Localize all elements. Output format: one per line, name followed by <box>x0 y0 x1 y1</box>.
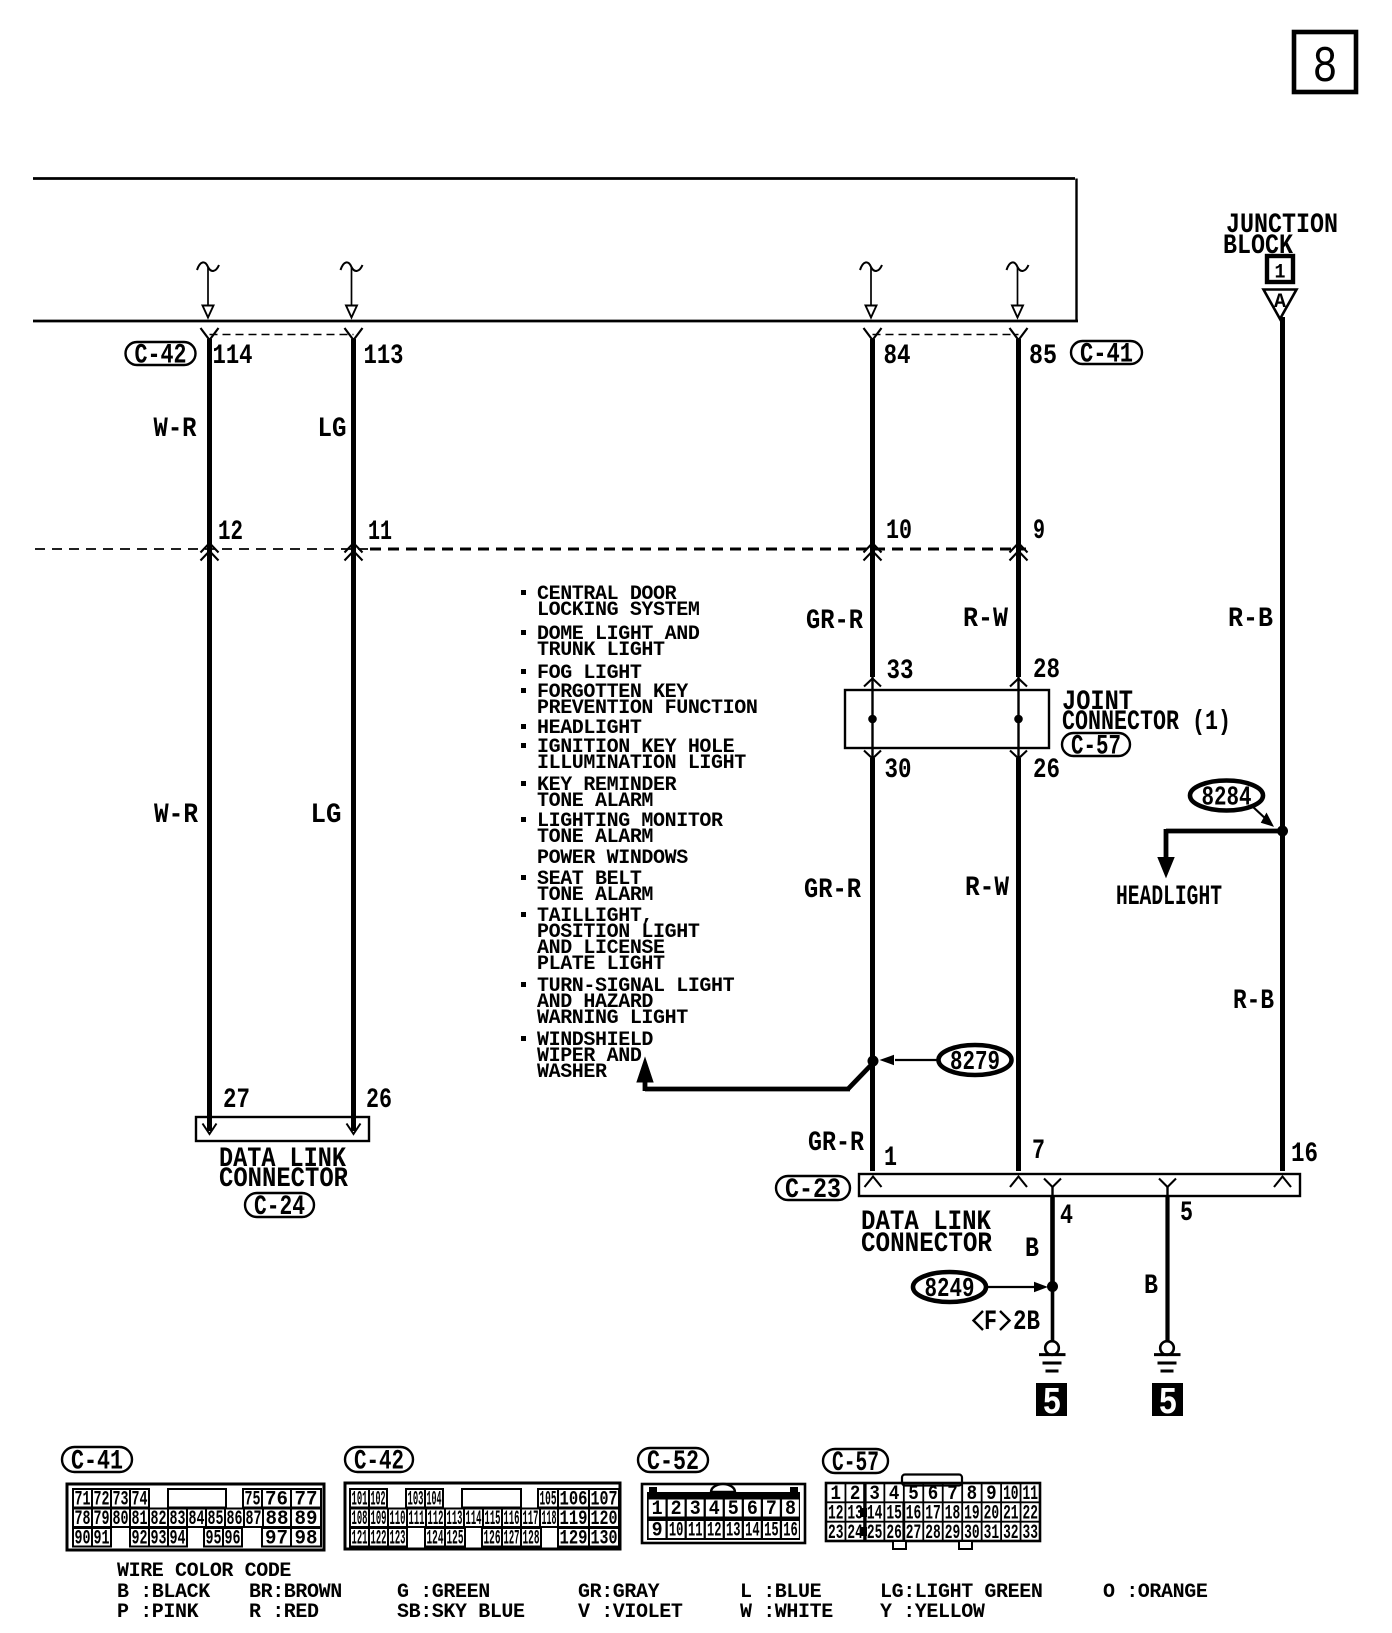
junction dot on GR-R wire <box>868 1056 879 1067</box>
wire label B (pin 4) <box>1025 1234 1039 1265</box>
svg-text:W :WHITE: W :WHITE <box>740 1601 833 1624</box>
label (F) 2B <box>974 1307 1041 1338</box>
label C-24 <box>245 1192 314 1223</box>
svg-text:B: B <box>1144 1271 1158 1302</box>
svg-text:128: 128 <box>523 1527 540 1550</box>
svg-text:WIRE COLOR CODE: WIRE COLOR CODE <box>117 1560 291 1583</box>
svg-text:97: 97 <box>265 1527 288 1550</box>
bus line top <box>33 177 1075 180</box>
svg-text:C-24: C-24 <box>254 1192 305 1223</box>
inline connector chevrons pin 11 <box>345 543 363 561</box>
load list <box>521 583 757 1084</box>
branch wire to load list <box>645 1062 874 1091</box>
pin number 26 (C-24) <box>366 1085 392 1116</box>
svg-text:13: 13 <box>726 1520 741 1543</box>
joint connector pin chevron 33 <box>864 679 881 687</box>
wire GR-R through joint connector (thin) <box>871 677 873 758</box>
svg-text:GR-R: GR-R <box>804 875 861 906</box>
svg-text:85: 85 <box>1029 341 1057 372</box>
wire label R-W <box>963 604 1008 635</box>
ground symbol pin 4 <box>1039 1341 1066 1371</box>
junction dot in joint connector right <box>1014 715 1023 724</box>
svg-text:122: 122 <box>371 1527 387 1550</box>
label C-42 (pinout) <box>345 1447 413 1478</box>
svg-text:5: 5 <box>1159 1382 1178 1425</box>
pin number 1 <box>884 1143 897 1174</box>
inline connector chevrons pin 10 <box>864 543 882 561</box>
junction dot on R-B wire <box>1277 826 1288 837</box>
svg-text:C-52: C-52 <box>647 1447 699 1478</box>
svg-text:6: 6 <box>747 1498 758 1521</box>
svg-text:C-41: C-41 <box>71 1447 123 1478</box>
pin number 26 <box>1033 755 1060 786</box>
svg-text:93: 93 <box>151 1527 167 1550</box>
svg-text:C-57: C-57 <box>832 1448 879 1479</box>
svg-text:R-W: R-W <box>963 604 1008 635</box>
pin chevron 114 <box>201 328 219 340</box>
svg-text:127: 127 <box>504 1527 520 1550</box>
label C-57 (pinout) <box>823 1448 888 1479</box>
pin number 114 <box>213 341 253 372</box>
svg-text:11: 11 <box>368 517 392 548</box>
wire label R-B lower <box>1233 986 1274 1017</box>
svg-text:WARNING LIGHT: WARNING LIGHT <box>537 1007 688 1030</box>
label HEADLIGHT <box>1116 882 1222 913</box>
connector C-42 boundary (dashed) <box>210 334 354 336</box>
svg-text:118: 118 <box>542 1508 557 1531</box>
svg-text:114: 114 <box>213 341 253 372</box>
callout oval 8279 <box>939 1045 1012 1078</box>
svg-text:9: 9 <box>1033 516 1045 547</box>
wire label GR-R <box>806 606 863 637</box>
svg-text:95: 95 <box>206 1527 222 1550</box>
svg-text:3: 3 <box>690 1498 701 1521</box>
svg-text:WASHER: WASHER <box>537 1061 607 1084</box>
connector C-57 pinout <box>826 1483 1040 1549</box>
svg-text:2: 2 <box>671 1498 682 1521</box>
branch wire to headlight <box>1166 829 1283 859</box>
pin number 16 <box>1291 1139 1318 1170</box>
svg-text:124: 124 <box>427 1527 444 1550</box>
joint connector pin chevron 28 <box>1010 679 1027 687</box>
svg-text:31: 31 <box>984 1522 1000 1545</box>
ground wire pin 5 <box>1165 1196 1169 1341</box>
svg-text:R :RED: R :RED <box>249 1601 319 1624</box>
pin number 85 <box>1029 341 1057 372</box>
connector C-52 pinout <box>642 1484 805 1543</box>
C-23 pin chevron 5 <box>1159 1179 1176 1197</box>
svg-text:5: 5 <box>1180 1198 1193 1229</box>
svg-text:84: 84 <box>189 1508 205 1531</box>
svg-text:96: 96 <box>225 1527 241 1550</box>
svg-text:2B: 2B <box>1013 1307 1040 1338</box>
wire color code legend <box>117 1560 1208 1624</box>
pin number 113 <box>364 341 404 372</box>
pin number 28 <box>1033 655 1060 686</box>
arrow from 8284 to wire <box>1252 806 1273 826</box>
pin number 7 <box>1032 1136 1045 1167</box>
svg-text:28: 28 <box>925 1522 941 1545</box>
wire label R-B upper <box>1228 604 1273 635</box>
svg-text:91: 91 <box>94 1527 110 1550</box>
wire GR-R upper <box>870 339 875 677</box>
svg-text:27: 27 <box>906 1522 922 1545</box>
label DATA LINK CONNECTOR (C-24) <box>219 1144 348 1195</box>
wire drop to pin 84 <box>860 262 882 317</box>
svg-text:98: 98 <box>295 1527 318 1550</box>
svg-text:30: 30 <box>885 755 912 786</box>
harness boundary dashed line left <box>35 548 370 550</box>
svg-text:R-B: R-B <box>1228 604 1273 635</box>
wire GR-R lower <box>870 758 875 1171</box>
svg-text:CONNECTOR: CONNECTOR <box>219 1164 348 1195</box>
svg-text:129: 129 <box>560 1527 588 1550</box>
junction dot on ground wire 4 <box>1047 1281 1058 1292</box>
connector C-42 pinout <box>345 1483 620 1550</box>
callout oval 8249 <box>913 1272 986 1305</box>
wire label W-R lower <box>154 800 198 831</box>
svg-text:HEADLIGHT: HEADLIGHT <box>1116 882 1222 913</box>
wire label GR-R mid <box>804 875 861 906</box>
svg-text:130: 130 <box>591 1527 618 1550</box>
svg-text:1: 1 <box>884 1143 897 1174</box>
pin number 30 <box>885 755 912 786</box>
svg-text:4: 4 <box>709 1498 720 1521</box>
wire R-B (junction block to C-23 pin 16) <box>1280 317 1285 1171</box>
svg-text:GR-R: GR-R <box>808 1128 864 1159</box>
svg-text:ILLUMINATION LIGHT: ILLUMINATION LIGHT <box>537 752 746 775</box>
pin chevron 113 <box>345 328 363 340</box>
svg-text:SB:SKY BLUE: SB:SKY BLUE <box>397 1601 525 1624</box>
wire label LG <box>318 414 347 445</box>
wire drop to pin 85 <box>1007 262 1029 317</box>
svg-text:A: A <box>1274 291 1286 314</box>
svg-text:C-23: C-23 <box>785 1175 841 1206</box>
wire label GR-R bottom <box>808 1128 864 1159</box>
arrowhead to load list <box>637 1058 653 1082</box>
svg-text:28: 28 <box>1033 655 1060 686</box>
ground symbol pin 5 <box>1154 1341 1181 1371</box>
svg-text:8249: 8249 <box>925 1275 975 1305</box>
svg-text:87: 87 <box>246 1508 262 1531</box>
svg-text:1: 1 <box>652 1498 663 1521</box>
svg-text:POWER WINDOWS: POWER WINDOWS <box>537 847 688 870</box>
svg-text:125: 125 <box>447 1527 464 1550</box>
junction dot in joint connector left <box>868 715 877 724</box>
wire label B (pin 5) <box>1144 1271 1158 1302</box>
svg-text:C-57: C-57 <box>1071 732 1121 763</box>
svg-text:B: B <box>1025 1234 1039 1265</box>
svg-text:7: 7 <box>1032 1136 1045 1167</box>
svg-text:90: 90 <box>75 1527 91 1550</box>
svg-text:R-B: R-B <box>1233 986 1274 1017</box>
pin chevron 84 <box>864 328 882 340</box>
connector C-24 box <box>196 1117 369 1141</box>
inline connector chevrons pin 9 <box>1010 543 1028 561</box>
label C-52 (pinout) <box>638 1447 708 1478</box>
svg-text:LG: LG <box>318 414 347 445</box>
pin chevron 85 <box>1010 328 1028 340</box>
svg-text:12: 12 <box>218 517 243 548</box>
svg-text:26: 26 <box>366 1085 392 1116</box>
junction block label <box>1223 210 1338 262</box>
C-23 pin chevron 4 <box>1044 1179 1061 1197</box>
connector C-23 box <box>859 1174 1300 1196</box>
svg-text:5: 5 <box>1043 1382 1062 1425</box>
svg-text:8: 8 <box>785 1498 796 1521</box>
svg-text:W-R: W-R <box>154 414 197 445</box>
svg-text:26: 26 <box>1033 755 1060 786</box>
label C-57 <box>1062 732 1130 763</box>
svg-text:10: 10 <box>669 1520 684 1543</box>
svg-text:80: 80 <box>113 1508 129 1531</box>
svg-text:11: 11 <box>688 1520 703 1543</box>
connector C-57 latch <box>902 1475 962 1486</box>
wire drop to pin 113 <box>341 262 363 317</box>
svg-text:114: 114 <box>466 1508 482 1531</box>
svg-text:94: 94 <box>170 1527 186 1550</box>
svg-text:121: 121 <box>352 1527 368 1550</box>
label C-42 <box>126 341 196 372</box>
label JOINT CONNECTOR (1) <box>1062 687 1231 738</box>
svg-text:29: 29 <box>945 1522 961 1545</box>
svg-text:R-W: R-W <box>965 873 1009 904</box>
pin number 9 <box>1033 516 1045 547</box>
harness boundary dashed line right (bold) <box>370 548 1026 551</box>
wire R-W through joint connector (thin) <box>1017 677 1019 758</box>
wire drop to pin 114 <box>197 262 219 317</box>
wire label W-R <box>154 414 197 445</box>
svg-text:32: 32 <box>1003 1522 1019 1545</box>
page number box 8 <box>1294 32 1356 97</box>
svg-text:C-41: C-41 <box>1080 340 1133 371</box>
label DATA LINK CONNECTOR (C-23) <box>861 1207 992 1260</box>
pin number 11 <box>368 517 392 548</box>
wire R-W lower <box>1016 758 1021 1171</box>
joint connector pin chevron 30 <box>864 751 881 759</box>
joint connector (1) box C-57 <box>845 690 1049 748</box>
wire R-W upper <box>1016 339 1021 677</box>
svg-text:111: 111 <box>409 1508 425 1531</box>
svg-text:10: 10 <box>886 516 912 547</box>
pin number 33 <box>887 656 914 687</box>
arrowhead to headlight <box>1158 858 1174 878</box>
svg-text:113: 113 <box>364 341 404 372</box>
arrowhead into C-24 pin 27 <box>203 1124 217 1135</box>
svg-text:16: 16 <box>783 1520 798 1543</box>
svg-text:4: 4 <box>1060 1201 1073 1232</box>
svg-text:33: 33 <box>1023 1522 1039 1545</box>
svg-text:TRUNK LIGHT: TRUNK LIGHT <box>537 639 665 662</box>
C-23 pin chevron 16 <box>1274 1177 1291 1188</box>
svg-text:126: 126 <box>484 1527 501 1550</box>
wire W-R (pin 114 to C-24 pin 27) <box>207 339 212 1131</box>
connector C-41 boundary (dashed) <box>873 334 1019 336</box>
pin number 12 <box>218 517 243 548</box>
arrow from 8249 to junction <box>986 1283 1047 1292</box>
label C-41 (pinout) <box>62 1447 132 1478</box>
svg-text:GR-R: GR-R <box>806 606 863 637</box>
pin number 27 <box>223 1085 250 1116</box>
svg-text:15: 15 <box>764 1520 779 1543</box>
ground reference box 5 (right) <box>1152 1382 1183 1425</box>
svg-text:84: 84 <box>884 341 911 372</box>
connector C-41 pinout <box>67 1484 324 1550</box>
svg-text:TONE ALARM: TONE ALARM <box>537 884 653 907</box>
callout oval 8284 <box>1190 781 1263 814</box>
junction block numbered box 1 <box>1267 256 1293 285</box>
arrow from 8279 to junction <box>881 1056 938 1065</box>
C-23 pin chevron 7 <box>1010 1177 1027 1188</box>
label C-41 <box>1071 340 1142 371</box>
svg-text:33: 33 <box>887 656 914 687</box>
svg-text:23: 23 <box>828 1522 844 1545</box>
svg-text:Y :YELLOW: Y :YELLOW <box>880 1601 985 1624</box>
svg-text:C-42: C-42 <box>354 1447 404 1478</box>
svg-text:9: 9 <box>652 1520 663 1543</box>
svg-text:92: 92 <box>132 1527 148 1550</box>
svg-text:7: 7 <box>766 1498 777 1521</box>
svg-text:14: 14 <box>745 1520 760 1543</box>
joint connector pin chevron 26 <box>1010 751 1027 759</box>
pin number 4 <box>1060 1201 1073 1232</box>
svg-text:O :ORANGE: O :ORANGE <box>1103 1581 1208 1604</box>
svg-text:CONNECTOR: CONNECTOR <box>861 1229 992 1260</box>
wire LG (pin 113 to C-24 pin 26) <box>351 339 356 1131</box>
ground reference box 5 (left) <box>1036 1382 1067 1425</box>
wire label LG lower <box>311 800 342 831</box>
bus right edge <box>1075 179 1077 322</box>
svg-text:8284: 8284 <box>1202 784 1252 814</box>
arrowhead into C-24 pin 26 <box>347 1124 361 1135</box>
label C-23 <box>776 1175 850 1206</box>
svg-text:123: 123 <box>390 1527 406 1550</box>
svg-text:8: 8 <box>1313 40 1338 97</box>
svg-text:5: 5 <box>728 1498 739 1521</box>
pin number 84 <box>884 341 911 372</box>
svg-text:27: 27 <box>223 1085 250 1116</box>
svg-text:F: F <box>984 1307 997 1338</box>
svg-text:8279: 8279 <box>950 1048 1000 1078</box>
inline connector chevrons pin 12 <box>201 543 219 561</box>
svg-text:1: 1 <box>1275 262 1286 285</box>
svg-text:V :VIOLET: V :VIOLET <box>578 1601 683 1624</box>
wire label R-W mid <box>965 873 1009 904</box>
bus line bottom <box>33 320 1078 323</box>
svg-text:16: 16 <box>1291 1139 1318 1170</box>
ground wire pin 4 <box>1050 1196 1055 1341</box>
pin number 5 <box>1180 1198 1193 1229</box>
svg-text:LG: LG <box>311 800 342 831</box>
svg-text:W-R: W-R <box>154 800 198 831</box>
junction block terminal triangle A <box>1264 290 1297 320</box>
pin number 10 <box>886 516 912 547</box>
svg-text:12: 12 <box>707 1520 722 1543</box>
svg-text:25: 25 <box>867 1522 883 1545</box>
svg-text:TONE ALARM: TONE ALARM <box>537 826 653 849</box>
svg-text:P :PINK: P :PINK <box>117 1601 199 1624</box>
C-23 pin chevron 1 <box>865 1177 882 1188</box>
svg-text:PLATE LIGHT: PLATE LIGHT <box>537 953 665 976</box>
svg-text:LOCKING SYSTEM: LOCKING SYSTEM <box>537 599 700 622</box>
svg-text:C-42: C-42 <box>135 341 187 372</box>
